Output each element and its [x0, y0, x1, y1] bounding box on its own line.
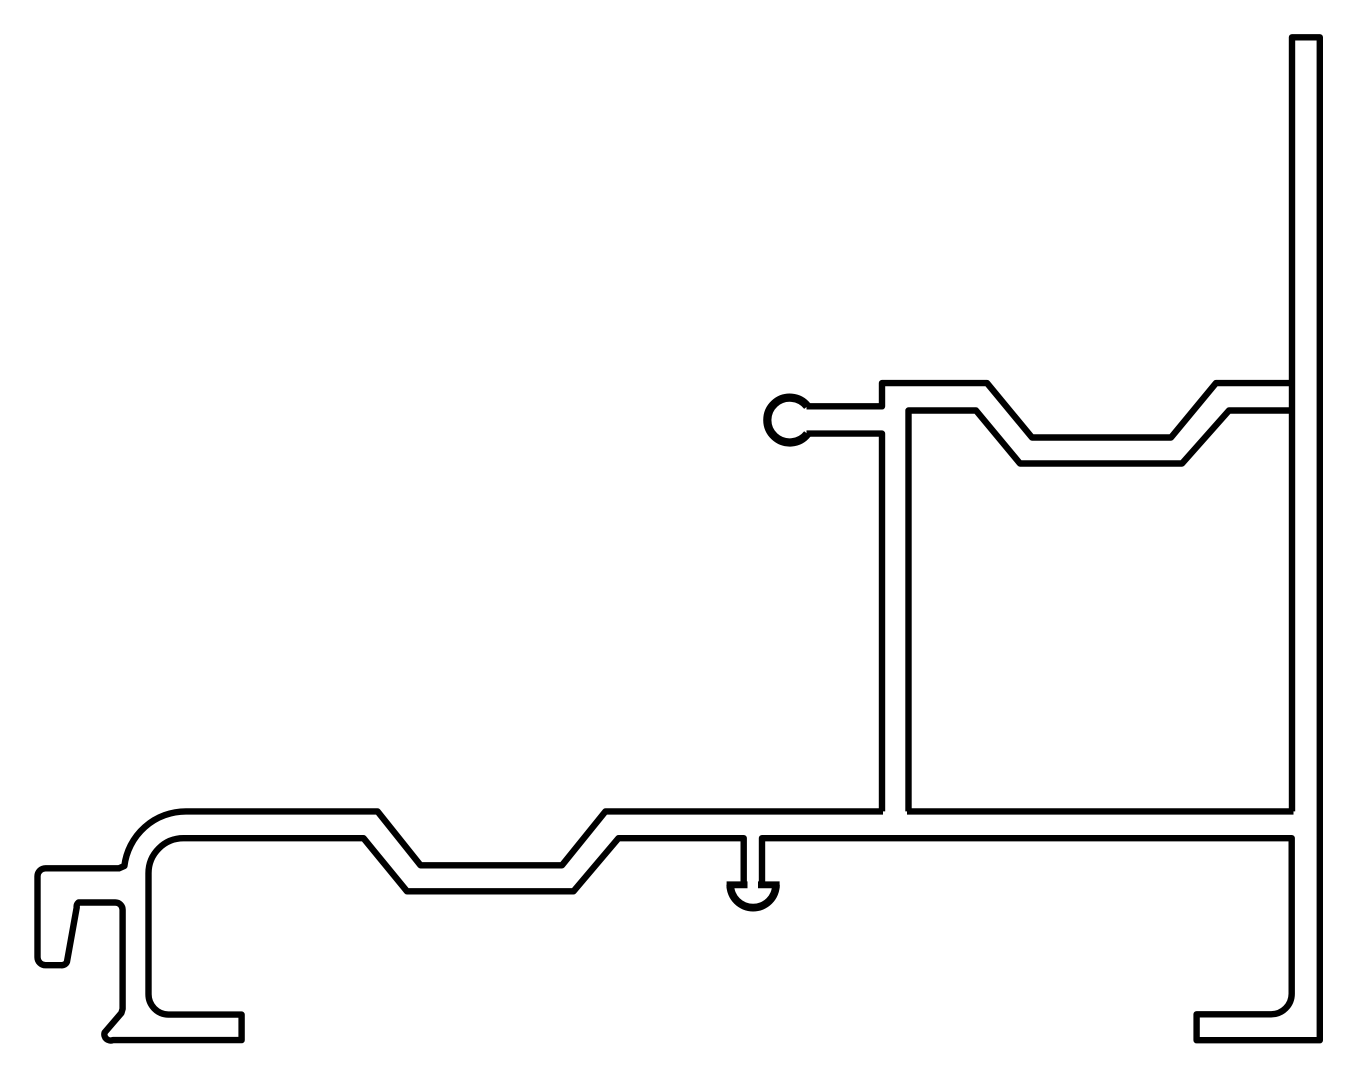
vertical web left line + lower stem line of gasket tube [807, 434, 883, 812]
outer contour: right mullion bar, right foot, bottom rail with screw-port, left web, left foot, left hook arm, rail top [762, 37, 1320, 1040]
screw-port stem left line, continuing rail bottom + left outline [38, 811, 884, 1040]
screw-port bowl crescent (half annulus) [726, 885, 779, 912]
screw-port flange ticks [727, 881, 748, 888]
rail top line right part (gap at T-slot opening) [907, 808, 1294, 814]
gasket tube (open ring) [767, 398, 807, 443]
upper stem line + glazing channel outer top with trapezoid notch [807, 383, 1294, 437]
vertical web right line + glazing channel inner line with notch [909, 411, 1294, 812]
